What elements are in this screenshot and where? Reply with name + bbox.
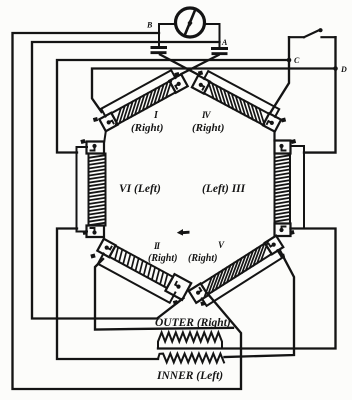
node D junction dot (333, 66, 338, 71)
wire galvanometer left lead to battery B (159, 24, 176, 46)
coil VI terminal box bottom (87, 226, 105, 238)
svg-text:(Left) III: (Left) III (202, 183, 246, 195)
svg-text:OUTER (Right): OUTER (Right) (155, 317, 231, 329)
node C junction dot (287, 58, 292, 63)
wire node D bus to coil I lower terminal (92, 69, 336, 113)
coil III winding (275, 154, 291, 224)
wire coil V upper terminal to INNER resistor right end (225, 251, 295, 358)
svg-text:A: A (221, 38, 228, 47)
switch S top edge (289, 36, 304, 38)
coil IV terminal box 2 (263, 113, 281, 131)
svg-text:C: C (294, 56, 300, 65)
svg-text:II: II (153, 241, 161, 251)
coil III terminal box top (275, 141, 291, 154)
wire second loop: battery A top to coil II (32, 42, 220, 319)
svg-text:B: B (146, 21, 153, 30)
wire third loop: node C bus to coil VI top (57, 60, 289, 153)
wire battery A to coil I upper terminal (crossing diagonal) (181, 55, 218, 74)
coil I core (empty strip) (101, 70, 175, 116)
coil VI winding (89, 154, 106, 226)
coil IV winding (204, 81, 269, 126)
coil I terminal box 2 (169, 74, 187, 92)
wire coil III bottom to OUTER resistor right end (158, 229, 336, 349)
coil IV core (empty strip) (204, 71, 279, 117)
terminal letter marks (80, 70, 296, 306)
coil V terminal box 2 (265, 236, 284, 255)
svg-text:I: I (153, 110, 159, 121)
wire battery B to coil IV upper terminal (crossing diagonal) (160, 55, 198, 75)
svg-text:IV: IV (201, 110, 212, 120)
coil II core (empty strip) (98, 254, 175, 303)
coil V core (empty strip) (202, 250, 282, 306)
battery A plates (211, 47, 228, 55)
coil I winding (111, 80, 175, 125)
coil II terminal box 2 (165, 274, 191, 300)
wire switch left edge through node C to coil IV lower terminal (271, 37, 290, 112)
coil II terminal box 1 (97, 239, 115, 257)
svg-text:(Right): (Right) (188, 253, 217, 264)
coil V winding (201, 241, 272, 297)
svg-text:VI (Left): VI (Left) (119, 183, 161, 195)
coil V terminal box 1 (189, 283, 208, 302)
wire coil VI bottom to INNER resistor left (57, 229, 158, 360)
svg-text:(Right): (Right) (131, 122, 163, 134)
resistor OUTER (Right) zigzag (158, 332, 222, 348)
coil VI core (empty strip) (77, 147, 88, 232)
svg-text:D: D (340, 65, 347, 74)
stub coil I to coil VI junction (104, 131, 106, 141)
wire switch right edge through node D down to coil III top (304, 37, 336, 152)
svg-text:(Right): (Right) (192, 122, 224, 134)
center arrow mark (177, 229, 190, 236)
stub coil IV to coil III junction (273, 133, 275, 141)
wire outer loop: battery B top to coil V (left/bottom rectangle) (13, 33, 242, 389)
coil VI terminal box top (87, 142, 105, 154)
galvanometer G (176, 8, 205, 37)
coil I terminal box 1 (99, 113, 117, 131)
coil III terminal box bottom (275, 224, 291, 237)
wire galvanometer right lead to battery A (204, 24, 220, 47)
switch S lever (304, 30, 320, 37)
coil II winding (109, 246, 173, 288)
svg-text:V: V (218, 240, 225, 250)
svg-text:(Right): (Right) (148, 253, 177, 264)
svg-text:INNER (Left): INNER (Left) (156, 370, 223, 382)
resistor INNER (Left) zigzag (158, 354, 224, 363)
battery B plates (151, 46, 168, 54)
wire coil II upper terminal down to OUTER resistor underline wire (95, 259, 233, 330)
coil IV terminal box 1 (192, 75, 210, 93)
coil III core (empty strip) (291, 146, 305, 229)
